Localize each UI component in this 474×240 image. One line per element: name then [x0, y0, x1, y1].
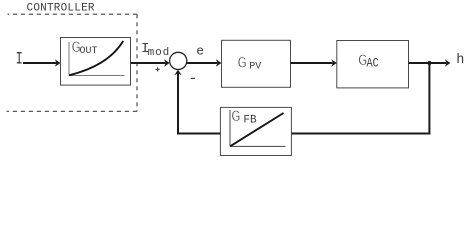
- block G_PV: [222, 40, 291, 87]
- junction node dot: [427, 61, 431, 65]
- svg-text:I: I: [16, 48, 23, 69]
- wire up into summing junction: [177, 73, 179, 135]
- svg-text:e: e: [196, 44, 204, 59]
- controller dashed box: [7, 14, 138, 111]
- block G_AC: [337, 41, 409, 88]
- G_FB diagonal line: [230, 113, 283, 146]
- block G_OUT: [61, 38, 131, 86]
- minus sign: [191, 77, 195, 79]
- svg-text:h: h: [456, 53, 464, 68]
- svg-text:G: G: [231, 108, 241, 126]
- wire G_AC to output h: [409, 62, 447, 64]
- wire G_PV to G_AC: [291, 62, 333, 64]
- svg-text:PV: PV: [249, 62, 261, 73]
- wire feedback vertical from junction: [428, 63, 430, 135]
- G_OUT graph axes: [69, 42, 125, 76]
- wire G_FB to below summing junction: [177, 133, 220, 135]
- svg-text:OUT: OUT: [80, 46, 98, 57]
- G_FB graph axes: [230, 110, 286, 146]
- svg-text:mod: mod: [148, 47, 171, 59]
- svg-text:AC: AC: [367, 55, 379, 71]
- svg-text:CONTROLLER: CONTROLLER: [27, 3, 95, 15]
- wire summing junction to G_PV: [187, 62, 218, 64]
- wire input I to G_OUT: [23, 62, 57, 64]
- wire feedback horizontal to G_FB: [291, 133, 430, 135]
- G_OUT curve: [69, 41, 123, 75]
- wire G_OUT to summing junction: [131, 62, 166, 64]
- svg-text:G: G: [237, 55, 247, 73]
- plus sign: [156, 67, 160, 71]
- block G_FB: [220, 107, 291, 155]
- svg-text:FB: FB: [243, 114, 257, 126]
- summing junction circle: [170, 52, 187, 69]
